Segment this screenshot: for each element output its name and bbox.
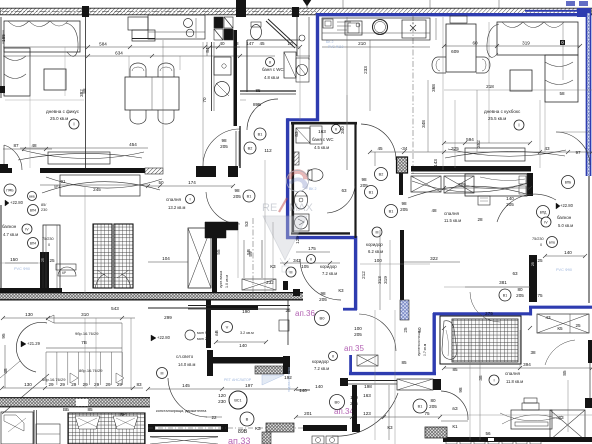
dim 454 — [20, 147, 148, 149]
svg-text:147: 147 — [246, 41, 254, 46]
ap35 bed1 — [465, 174, 527, 196]
svg-text:123: 123 — [363, 411, 371, 416]
lower bed pillows — [75, 416, 100, 429]
dim vertical x203 — [202, 42, 204, 166]
svg-text:75/230: 75/230 — [532, 237, 544, 241]
top wall pier B — [236, 0, 246, 17]
svg-text:сл.свето: сл.свето — [176, 354, 194, 359]
left bath niche sink — [214, 57, 231, 75]
wardrobe top xbox — [537, 314, 589, 333]
svg-text:98: 98 — [458, 387, 463, 393]
pale hatch triangle — [262, 375, 284, 385]
svg-text:48: 48 — [431, 208, 437, 213]
ap35 entry door arc — [361, 124, 396, 160]
ap36 washer — [293, 214, 309, 231]
top wall pier C — [292, 7, 299, 17]
dim vertical x85b — [84, 186, 86, 293]
stair dim row top — [3, 317, 135, 319]
svg-text:205: 205 — [354, 332, 362, 337]
svg-text:PVC Ф90: PVC Ф90 — [14, 267, 30, 271]
left WC toilet — [251, 25, 262, 40]
svg-text:205: 205 — [516, 293, 524, 298]
bedroom top wall black 1 — [0, 168, 12, 173]
dim vertical x540 — [539, 100, 541, 168]
left apt washer — [296, 58, 309, 82]
left cabinet top right — [128, 17, 148, 30]
ap34 wall y381 — [348, 380, 397, 382]
svg-text:382: 382 — [79, 89, 84, 97]
bedroom top wall black 4 — [228, 166, 238, 177]
left kitchen lower cabinet — [132, 30, 155, 41]
sofa socket mark — [560, 40, 565, 45]
svg-text:50: 50 — [158, 180, 164, 185]
ap34 hatch block — [425, 427, 447, 438]
dim 145 197 — [148, 388, 296, 390]
svg-text:75/230: 75/230 — [42, 237, 54, 241]
circle VP4 a — [28, 205, 39, 216]
svg-text:В1: В1 — [369, 191, 374, 195]
svg-text:230: 230 — [41, 208, 47, 212]
dim 394 — [444, 367, 592, 369]
v room walls — [188, 305, 290, 307]
svg-text:218: 218 — [486, 84, 494, 89]
svg-text:ВПБ: ВПБ — [549, 241, 555, 245]
stair curve wall — [16, 322, 47, 372]
shaft xbox tall — [188, 228, 211, 288]
stair arrow top — [46, 315, 54, 323]
svg-text:ВК 2: ВК 2 — [309, 187, 317, 191]
svg-text:594: 594 — [466, 137, 474, 142]
svg-text:25: 25 — [575, 323, 581, 328]
left kitchen sink — [184, 19, 193, 28]
ap35 desk chair — [524, 398, 537, 403]
ap35 shelves — [337, 22, 351, 30]
service door arc — [168, 378, 207, 417]
ap36 entry arc — [300, 259, 341, 300]
svg-text:ВПБ: ВПБ — [565, 181, 572, 185]
bedroom1 waves — [408, 186, 530, 198]
door arc lower right — [545, 340, 575, 365]
svg-text:205: 205 — [233, 194, 241, 199]
ap35 dining chairs — [432, 57, 446, 73]
left stove 2x2 — [214, 17, 223, 28]
ap34 xbox — [397, 379, 433, 390]
svg-text:75: 75 — [537, 293, 543, 298]
stair dim row — [2, 387, 143, 389]
dim vertical x480 — [479, 330, 481, 440]
svg-text:98: 98 — [361, 177, 367, 182]
bedroom top wall hatch — [145, 168, 163, 174]
blue top horizontal — [317, 13, 586, 16]
svg-text:II: II — [332, 355, 334, 359]
svg-text:дневна с фикус: дневна с фикус — [46, 109, 80, 114]
ap35 dining table — [446, 24, 476, 72]
dim 584 — [3, 46, 240, 48]
bedroom1 door arc — [497, 194, 556, 222]
watermark balloon mid — [289, 178, 308, 189]
ap34 lower walls — [296, 389, 310, 391]
svg-text:25.0 кв.м: 25.0 кв.м — [50, 116, 68, 121]
dim 104 — [148, 261, 188, 263]
svg-text:5З: 5З — [244, 221, 249, 227]
svg-text:543: 543 — [111, 306, 119, 311]
left window leaf arcs — [95, 274, 131, 288]
svg-text:IV: IV — [544, 221, 548, 225]
blue right window band — [586, 13, 591, 176]
stair dim vert — [4, 345, 6, 388]
svg-text:205: 205 — [220, 144, 228, 149]
svg-text:К3: К3 — [338, 288, 344, 293]
svg-text:83: 83 — [136, 382, 142, 387]
svg-text:310: 310 — [81, 312, 89, 317]
left radiator window — [48, 152, 110, 164]
svg-text:192: 192 — [284, 375, 292, 380]
svg-text:205: 205 — [506, 202, 514, 207]
svg-text:9бр.16.76/29: 9бр.16.76/29 — [75, 331, 99, 336]
svg-text:25: 25 — [285, 308, 291, 313]
circle B1 c — [365, 186, 378, 199]
svg-text:В0: В0 — [335, 400, 341, 405]
svg-text:233: 233 — [363, 66, 368, 74]
svg-text:8бр.16.76/29: 8бр.16.76/29 — [79, 368, 103, 373]
svg-text:4.5 кв.м: 4.5 кв.м — [314, 145, 329, 150]
svg-text:В2: В2 — [379, 173, 384, 177]
svg-text:+22.80: +22.80 — [10, 200, 24, 205]
ap36 bath right wall — [354, 164, 356, 238]
circle VP4 b — [28, 238, 39, 249]
circle B0 — [315, 311, 330, 326]
svg-text:322: 322 — [430, 256, 438, 261]
watermark balloon bottom diamond — [263, 216, 307, 260]
svg-text:100: 100 — [374, 258, 382, 263]
svg-text:3.2 кв.м: 3.2 кв.м — [240, 331, 254, 335]
svg-text:4.7 кв.м: 4.7 кв.м — [3, 232, 18, 237]
svg-text:I: I — [73, 122, 74, 127]
stair treads — [45, 352, 47, 385]
svg-text:112: 112 — [264, 148, 272, 153]
bottom xbox — [150, 437, 218, 444]
svg-text:87: 87 — [13, 143, 19, 148]
svg-text:вР: вР — [120, 412, 126, 417]
svg-text:22: 22 — [211, 415, 217, 420]
left bath dim row — [210, 46, 300, 48]
svg-text:I: I — [518, 123, 519, 128]
svg-text:кухненски ниша: кухненски ниша — [417, 331, 421, 356]
svg-text:К5: К5 — [557, 326, 563, 331]
lower small rects — [36, 424, 60, 444]
dim 87 48 row — [3, 148, 52, 150]
circle B1 a — [254, 128, 266, 140]
ap35 fridge — [323, 19, 333, 28]
niche door arc — [359, 314, 396, 351]
svg-text:140: 140 — [506, 196, 514, 201]
svg-text:230: 230 — [218, 399, 226, 404]
extra dim verticals — [29, 56, 31, 168]
svg-text:25: 25 — [403, 327, 408, 333]
svg-text:КЗ: КЗ — [270, 264, 276, 269]
svg-text:58: 58 — [559, 91, 565, 96]
circle B1 b — [243, 190, 255, 202]
svg-text:ап.33: ап.33 — [228, 436, 250, 444]
left living wall x85 — [85, 17, 87, 169]
dim vertical x347 — [346, 17, 348, 170]
misc ticks — [290, 39, 296, 41]
svg-text:В1: В1 — [503, 294, 507, 298]
svg-text:18: 18 — [233, 41, 239, 46]
circle B1 e — [499, 289, 511, 301]
svg-text:ВП4: ВП4 — [30, 242, 36, 246]
svg-text:130: 130 — [25, 312, 33, 317]
dim 233 vert — [369, 40, 371, 111]
circle VPB b — [547, 237, 558, 248]
svg-text:348: 348 — [421, 120, 426, 128]
watermark balloon red top — [287, 170, 308, 180]
svg-text:баня с WC: баня с WC — [312, 137, 334, 142]
svg-text:120: 120 — [218, 393, 226, 398]
ap36 bath walls — [291, 122, 294, 232]
svg-text:83: 83 — [294, 131, 299, 137]
svg-text:+21.29: +21.29 — [27, 341, 41, 346]
svg-text:25: 25 — [49, 258, 55, 263]
svg-text:ПФБ: ПФБ — [6, 189, 14, 193]
left bed — [60, 175, 140, 196]
svg-text:III: III — [161, 372, 164, 376]
balcony bottom wall — [0, 288, 62, 293]
svg-text:140: 140 — [239, 343, 247, 348]
blue horizontal y307 to edge — [529, 306, 592, 309]
svg-text:29: 29 — [60, 382, 66, 387]
svg-text:313: 313 — [377, 276, 382, 284]
dim horizontal y415 right — [440, 414, 592, 416]
svg-text:145: 145 — [182, 383, 190, 388]
left bed waves — [42, 182, 160, 193]
svg-text:11.5 кв.м: 11.5 кв.м — [444, 218, 461, 223]
svg-text:205: 205 — [400, 207, 408, 212]
svg-text:584: 584 — [99, 42, 107, 47]
svg-text:III: III — [290, 271, 293, 275]
svg-text:163: 163 — [363, 393, 371, 398]
svg-text:6.2 кв.м: 6.2 кв.м — [368, 249, 383, 254]
blue top thin second line — [525, 10, 588, 12]
svg-text:11.8 кв.м: 11.8 кв.м — [506, 379, 523, 384]
bed1 nightstand — [478, 196, 490, 205]
bedroom1 corner wall — [527, 173, 533, 196]
svg-text:29: 29 — [83, 382, 89, 387]
ap35 right wall black — [400, 230, 404, 320]
svg-text:198: 198 — [364, 384, 372, 389]
hatch after wall — [255, 366, 284, 374]
svg-text:98: 98 — [221, 138, 227, 143]
ap35 dishwasher — [402, 20, 426, 38]
svg-text:коридор: коридор — [312, 359, 329, 364]
left door arc — [4, 145, 22, 170]
left window grid block 2 — [114, 224, 133, 288]
svg-text:609: 609 — [451, 49, 459, 54]
slab edge band 2 — [0, 398, 150, 407]
shaft wall black left — [212, 222, 217, 292]
wardrobe2 xbox — [550, 410, 585, 440]
ap35 sofa horizontal — [497, 22, 578, 55]
svg-text:вЗ: вЗ — [452, 406, 457, 411]
svg-text:II: II — [310, 258, 312, 262]
svg-text:+22.80: +22.80 — [157, 335, 171, 340]
svg-text:0: 0 — [540, 243, 542, 247]
svg-text:98: 98 — [234, 188, 240, 193]
svg-text:балкон: балкон — [557, 215, 572, 220]
niche xbox — [357, 355, 378, 366]
svg-text:299: 299 — [164, 315, 172, 320]
blue niche right x434 — [433, 313, 436, 375]
bottom wall band right — [443, 437, 592, 442]
slab edge band 1 — [0, 293, 303, 300]
svg-text:7.2 кв.м: 7.2 кв.м — [314, 366, 329, 371]
left wall dim ticks — [2, 30, 4, 44]
stair diagonal — [2, 374, 49, 414]
svg-text:40: 40 — [219, 41, 225, 46]
left edge black block — [0, 86, 5, 93]
left bath walls — [246, 40, 248, 92]
left apt kitchen edge — [296, 17, 298, 56]
svg-text:29: 29 — [48, 382, 54, 387]
dim tick marks — [86, 45, 90, 49]
top wall pier A — [82, 6, 89, 17]
left bath chamfer — [266, 21, 295, 48]
circle B0 b — [330, 395, 345, 410]
dim 322 — [404, 261, 460, 263]
blue vertical x356 — [354, 236, 357, 310]
door arc b1e — [470, 292, 500, 322]
balcony5 wall black — [529, 255, 537, 302]
blue dashes above corner — [566, 1, 575, 6]
svg-text:кухн.ниша: кухн.ниша — [219, 271, 223, 288]
svg-text:В1: В1 — [418, 405, 423, 409]
svg-text:спалня: спалня — [166, 197, 182, 202]
svg-text:балкон: балкон — [2, 224, 17, 229]
lower walls top — [148, 307, 207, 309]
dim vertical x163 — [162, 40, 164, 168]
ap34 bottom furniture — [312, 436, 324, 444]
svg-text:140: 140 — [299, 388, 307, 393]
svg-text:RE: RE — [262, 202, 277, 214]
svg-text:7В: 7В — [81, 340, 87, 345]
svg-text:319: 319 — [522, 41, 530, 46]
svg-text:394: 394 — [523, 362, 531, 367]
svg-text:В0: В0 — [320, 316, 326, 321]
svg-text:29: 29 — [117, 382, 123, 387]
ap34 dim row2 — [296, 416, 440, 418]
svg-text:ап.36: ап.36 — [295, 309, 315, 318]
svg-text:201: 201 — [304, 411, 312, 416]
svg-text:63: 63 — [512, 271, 518, 276]
ap35 hob — [373, 20, 388, 35]
svg-text:К1: К1 — [452, 424, 458, 429]
circle B1 f — [413, 399, 427, 413]
left dining chairs bottom — [130, 110, 146, 124]
svg-text:ВПД: ВПД — [540, 211, 547, 215]
svg-text:25.5 кв.м: 25.5 кв.м — [488, 116, 506, 121]
svg-text:104: 104 — [162, 256, 170, 261]
svg-text:28: 28 — [477, 217, 483, 222]
svg-text:60: 60 — [472, 41, 478, 46]
svg-text:I: I — [189, 197, 190, 202]
svg-text:63: 63 — [341, 188, 347, 193]
dim vertical x443 — [442, 17, 444, 170]
lower bedroom bed grid — [68, 413, 145, 444]
left coffee table — [44, 69, 66, 90]
watermark slash — [279, 198, 287, 212]
lower wardrobe left — [1, 412, 33, 444]
ap35 door arc topright — [556, 132, 590, 165]
left dining chairs top — [130, 63, 146, 77]
svg-text:50: 50 — [417, 327, 422, 333]
svg-text:205: 205 — [429, 404, 437, 409]
svg-text:ВС1: ВС1 — [234, 399, 241, 403]
svg-text:97: 97 — [575, 150, 581, 155]
svg-text:дневна с кухбокс: дневна с кухбокс — [484, 109, 521, 114]
svg-text:80: 80 — [430, 398, 436, 403]
svg-text:45: 45 — [377, 146, 383, 151]
svg-text:коридор: коридор — [366, 242, 383, 247]
svg-text:85: 85 — [255, 88, 261, 93]
svg-text:454: 454 — [129, 142, 137, 147]
blue niche stub x350 — [349, 355, 352, 374]
right edge walls — [588, 340, 592, 363]
ap35 wall black with hatch — [397, 157, 408, 173]
ap34 bottom wall — [303, 425, 347, 431]
svg-text:163: 163 — [318, 129, 326, 134]
left bath shelf — [284, 52, 296, 78]
circle B2 b — [375, 168, 388, 181]
black walls ap34 — [340, 378, 348, 386]
svg-text:45: 45 — [259, 41, 265, 46]
svg-text:7.2 кв.м: 7.2 кв.м — [322, 271, 337, 276]
svg-text:ВБ: ВБ — [63, 407, 69, 412]
wardrobe xbox b — [444, 176, 474, 193]
svg-text:80: 80 — [517, 287, 523, 292]
dim horizontal y260 left — [0, 262, 40, 264]
left inner wall x234 — [234, 30, 238, 126]
svg-text:В1: В1 — [389, 210, 394, 214]
balcony window panel — [43, 225, 60, 289]
bedroom top wall black 2 — [40, 168, 145, 173]
svg-text:43: 43 — [544, 146, 550, 151]
svg-text:PVC Ф110: PVC Ф110 — [328, 45, 344, 49]
svg-text:БК 2: БК 2 — [326, 40, 333, 44]
bedroom dim row — [148, 185, 233, 187]
ap35 desk — [511, 410, 552, 429]
svg-text:89Б: 89Б — [253, 102, 261, 107]
svg-text:В: В — [246, 417, 249, 422]
svg-text:98: 98 — [320, 291, 326, 296]
dim verticals corr — [379, 230, 381, 310]
left kitchen bath divider — [211, 42, 213, 111]
ap35 bed2 grid — [440, 316, 521, 364]
wall lines to bedroom — [374, 152, 376, 166]
circle V — [222, 322, 233, 333]
corridor door arc 2 — [206, 192, 240, 224]
svg-text:95: 95 — [1, 333, 6, 339]
blue horizontal y237 — [286, 236, 357, 239]
top exterior wall hatched band — [0, 8, 592, 15]
svg-text:205: 205 — [319, 297, 327, 302]
left sofa horizontal part — [4, 21, 80, 52]
svg-text:85: 85 — [562, 370, 567, 376]
wall below bath — [239, 126, 241, 168]
svg-text:баня с WC: баня с WC — [262, 67, 284, 72]
left bath door arc2 — [247, 99, 278, 130]
dim 594 325 — [444, 142, 530, 144]
circle B small — [240, 412, 254, 426]
